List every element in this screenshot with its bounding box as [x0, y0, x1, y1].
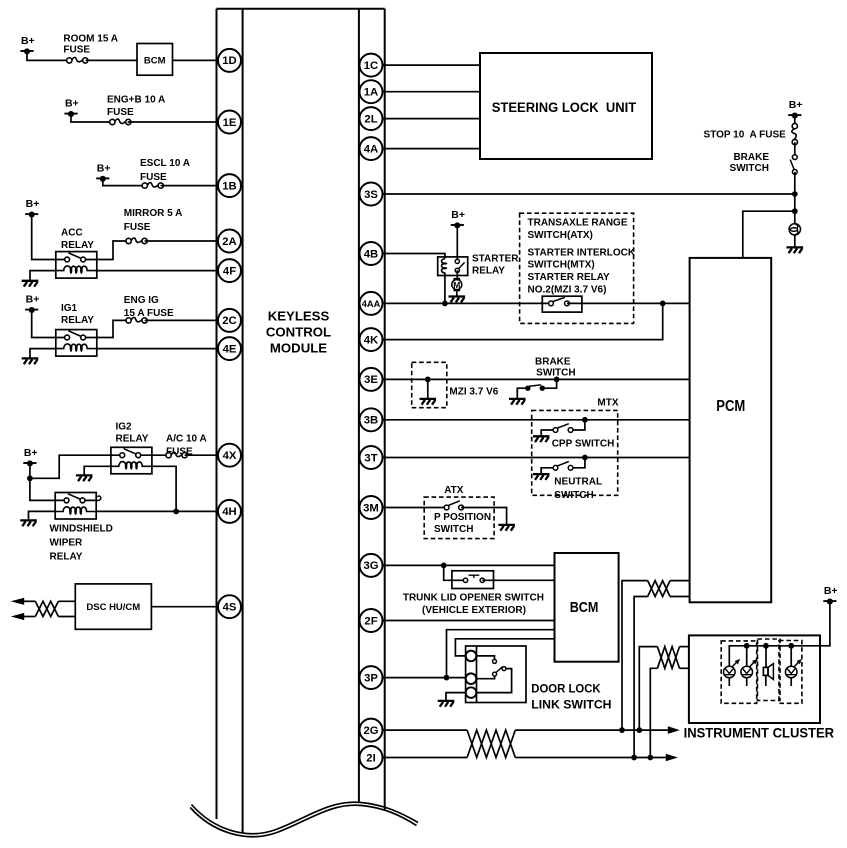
pin 4F — [218, 259, 241, 282]
wire 2F line — [380, 620, 555, 622]
ground (MZI) — [420, 399, 437, 405]
cluster dashed box 3 — [779, 641, 802, 704]
pin 1B — [218, 174, 241, 197]
wire wiper coil to pin 4H — [96, 510, 222, 512]
svg-text:ROOM 15 A: ROOM 15 A — [63, 34, 118, 45]
svg-text:PCM: PCM — [716, 398, 745, 415]
fuse ENG IG 15A — [126, 317, 147, 323]
wire stop lamp to ground — [794, 235, 796, 247]
wire mirror fuse to pin 2A — [145, 240, 222, 242]
relay IG2 — [111, 447, 152, 474]
wire motor to ground — [456, 291, 458, 295]
svg-text:2C: 2C — [222, 315, 236, 327]
svg-text:BRAKE: BRAKE — [733, 152, 769, 163]
brake switch (3E) — [525, 385, 545, 391]
pin 4E — [218, 337, 241, 360]
svg-text:STARTER INTERLOCK: STARTER INTERLOCK — [528, 248, 636, 259]
svg-text:2L: 2L — [364, 113, 377, 125]
pin 4AA — [360, 292, 383, 315]
svg-text:IG2: IG2 — [116, 422, 133, 433]
relay windshield wiper — [55, 493, 96, 520]
wire to lamp 3 — [790, 646, 792, 666]
wire stop fuse to brake switch — [794, 142, 796, 157]
wire wiper coil to ground — [29, 511, 56, 519]
svg-text:4X: 4X — [223, 450, 237, 462]
fuse ESCL 10A — [142, 183, 163, 189]
twisted pair (to cluster) — [657, 647, 679, 669]
svg-text:RELAY: RELAY — [50, 552, 83, 563]
wire to stop lamp — [794, 211, 796, 224]
pin 4X — [218, 444, 241, 467]
junction 2I / PCM pair — [631, 755, 637, 761]
svg-text:3G: 3G — [363, 560, 378, 572]
wire 4AA line left part — [380, 302, 551, 304]
pin 3S — [360, 183, 383, 206]
wire IG1 coil to ground — [30, 349, 56, 358]
svg-text:SWITCH: SWITCH — [554, 490, 593, 501]
junction lamp 3 — [788, 643, 794, 649]
fuse MIRROR 5A — [126, 238, 147, 244]
MZI 3.7 V6 box (dashed) — [412, 362, 447, 407]
ground (P position) — [498, 525, 515, 531]
wire ENG IG fuse to pin 2C — [145, 319, 222, 321]
wire starter coil to 4AA line — [444, 273, 446, 304]
svg-text:ESCL 10 A: ESCL 10 A — [140, 158, 190, 169]
starter relay — [438, 257, 468, 276]
wire DSC to pin 4S — [151, 606, 222, 608]
pin 2I — [360, 746, 383, 769]
svg-text:ENG IG: ENG IG — [124, 295, 159, 306]
wire 3G line — [380, 564, 555, 566]
wire wiper switch stub — [96, 499, 98, 501]
svg-text:RELAY: RELAY — [61, 240, 94, 251]
indicator lamp 3 — [785, 659, 802, 678]
junction neutral switch — [582, 455, 588, 461]
svg-text:P POSITION: P POSITION — [434, 512, 491, 523]
svg-text:M: M — [453, 280, 460, 290]
svg-text:MIRROR 5 A: MIRROR 5 A — [124, 208, 183, 219]
starter motor M — [452, 278, 462, 291]
pin 3P — [360, 666, 383, 689]
svg-text:ATX: ATX — [444, 485, 464, 496]
wire BCM to pin 1D — [173, 59, 223, 61]
ground (neutral switch) — [533, 474, 550, 480]
wire pair to cluster upper — [680, 646, 689, 648]
ground (IG2 relay) — [76, 475, 93, 481]
svg-text:B+: B+ — [824, 585, 838, 597]
wire ENG+B fuse to pin 1E — [128, 121, 222, 123]
svg-text:STEERING LOCK UNIT: STEERING LOCK UNIT — [492, 100, 637, 116]
wire 2L to steering lock unit — [380, 118, 480, 120]
wire 4K to 4AA junction — [380, 303, 663, 339]
wire DSC twisted pair lower — [58, 616, 75, 618]
svg-text:NO.2(MZI 3.7 V6): NO.2(MZI 3.7 V6) — [528, 285, 607, 296]
wire 2G branch up to PCM pair — [622, 581, 648, 731]
wire pair to PCM lower — [670, 596, 690, 598]
wire 2G line right — [515, 729, 669, 731]
wire B+ to ENG+B fuse — [71, 114, 113, 122]
svg-text:FUSE: FUSE — [63, 44, 90, 55]
wire 3S line — [380, 193, 795, 195]
wire branch to PCM top — [743, 211, 795, 258]
ground (CPP) — [533, 436, 550, 442]
wire B+ to IG1 relay switch — [32, 310, 56, 338]
wire lamp 1 lower — [728, 678, 730, 686]
relay IG1 — [56, 330, 97, 357]
svg-text:3M: 3M — [363, 502, 379, 514]
fuse A/C 10A — [166, 452, 187, 458]
pin 3T — [360, 446, 383, 469]
pin 1A — [360, 80, 383, 103]
relay ACC — [56, 252, 97, 279]
pin 1C — [360, 54, 383, 77]
svg-text:4K: 4K — [364, 334, 379, 346]
junction 3P / BCM — [444, 675, 450, 681]
svg-text:WINDSHIELD: WINDSHIELD — [50, 523, 113, 534]
svg-text:FUSE: FUSE — [107, 107, 134, 118]
svg-text:4E: 4E — [223, 343, 237, 355]
pin 2A — [218, 230, 241, 253]
wire B+ to stop fuse — [794, 115, 796, 126]
svg-text:ACC: ACC — [61, 228, 83, 239]
DSC HU/CM unit — [75, 584, 151, 629]
PCM unit — [690, 258, 772, 602]
pin 4S — [218, 595, 241, 618]
wire IG1 relay to ENG IG fuse — [97, 320, 129, 337]
fuse ENG+B 10A — [110, 119, 131, 125]
svg-text:3P: 3P — [364, 672, 378, 684]
svg-text:4B: 4B — [364, 248, 378, 260]
arrow (DSC lower) — [11, 613, 25, 620]
svg-text:MZI 3.7 V6: MZI 3.7 V6 — [449, 387, 498, 398]
B+ supply (stop fuse) — [788, 99, 802, 118]
pin 4A — [360, 137, 383, 160]
junction 4AA / 4K — [660, 301, 666, 307]
svg-text:3B: 3B — [364, 415, 378, 427]
svg-text:15 A FUSE: 15 A FUSE — [124, 308, 174, 319]
wire 4B to starter relay coil — [380, 254, 445, 259]
wire ACC relay to mirror fuse — [97, 241, 129, 260]
wire pair to PCM upper — [670, 580, 690, 582]
svg-text:1B: 1B — [222, 180, 236, 192]
pin 2G — [360, 719, 383, 742]
svg-text:TRANSAXLE RANGE: TRANSAXLE RANGE — [528, 218, 628, 229]
wire down to branch — [794, 194, 796, 211]
ground (door lock) — [438, 701, 455, 707]
junction MZI ground — [425, 377, 431, 383]
wire A/C fuse to pin 4X — [185, 454, 222, 456]
transaxle range switch contacts — [542, 296, 582, 312]
svg-text:3E: 3E — [364, 374, 378, 386]
indicator lamp 1 — [724, 659, 741, 678]
pin 4B — [360, 242, 383, 265]
ground (wiper relay) — [20, 520, 37, 526]
neutral switch — [541, 458, 585, 474]
twisted pair (DSC) — [35, 601, 58, 616]
junction 3S / brake — [792, 191, 798, 197]
junction trunk switch — [441, 563, 447, 569]
pin 3B — [360, 408, 383, 431]
wire B+ to starter contact — [456, 225, 458, 261]
wire P position switch to ground — [461, 508, 507, 525]
svg-text:CONTROL: CONTROL — [266, 325, 331, 340]
junction buzzer — [763, 643, 769, 649]
wire 2I line right — [515, 757, 667, 759]
svg-text:SWITCH: SWITCH — [730, 163, 769, 174]
wire 2I branch to cluster pair — [650, 668, 657, 757]
svg-text:FUSE: FUSE — [140, 172, 167, 183]
wire 1C to steering lock unit — [380, 64, 480, 66]
svg-text:TRUNK LID OPENER SWITCH: TRUNK LID OPENER SWITCH — [403, 593, 544, 604]
svg-text:(VEHICLE EXTERIOR): (VEHICLE EXTERIOR) — [422, 605, 526, 616]
wire room fuse to BCM — [86, 59, 137, 61]
pin 2F — [360, 609, 383, 632]
svg-text:3S: 3S — [364, 189, 378, 201]
svg-text:2G: 2G — [363, 725, 378, 737]
svg-text:1A: 1A — [364, 87, 378, 99]
B+ supply (cluster) — [823, 585, 837, 604]
steering lock unit — [480, 53, 652, 159]
wire lamp 2 lower — [746, 678, 748, 686]
CPP switch — [541, 420, 585, 436]
svg-text:DOOR LOCK: DOOR LOCK — [531, 682, 600, 696]
svg-text:FUSE: FUSE — [124, 222, 151, 233]
svg-text:NEUTRAL: NEUTRAL — [554, 477, 602, 488]
wire B+ rail to lamp 1 — [729, 601, 830, 666]
BCM unit — [555, 553, 619, 662]
junction 4H line — [173, 509, 179, 515]
wire B+ to room fuse — [27, 51, 69, 60]
svg-text:B+: B+ — [24, 447, 38, 459]
wire brake switch to ground — [517, 388, 528, 398]
wire to lamp 2 — [746, 646, 748, 666]
B+ supply (starter relay) — [451, 209, 465, 228]
svg-text:2F: 2F — [364, 615, 377, 627]
wire ESCL fuse to pin 1B — [161, 185, 222, 187]
svg-text:MTX: MTX — [597, 397, 618, 408]
svg-text:BCM: BCM — [570, 600, 599, 616]
wire stub curl — [97, 496, 101, 501]
arrow (DSC upper) — [11, 598, 25, 605]
svg-text:KEYLESS: KEYLESS — [268, 309, 330, 324]
svg-text:4F: 4F — [223, 265, 236, 277]
svg-text:B+: B+ — [21, 35, 35, 47]
wire trunk switch to BCM — [482, 579, 554, 581]
wire pair to cluster lower — [680, 667, 689, 669]
cluster dashed box 2 — [758, 639, 781, 701]
wire B+ down to junction — [29, 463, 31, 478]
ground (ACC relay) — [22, 281, 39, 287]
junction CPP — [582, 417, 588, 423]
instrument cluster box — [689, 635, 820, 723]
wire IG2 coil to 4H line — [152, 466, 176, 511]
fuse STOP 10A — [792, 123, 798, 144]
svg-text:2A: 2A — [222, 236, 236, 248]
svg-text:RELAY: RELAY — [116, 433, 149, 444]
indicator lamp 2 — [741, 659, 758, 678]
svg-text:BCM: BCM — [144, 55, 166, 66]
svg-text:WIPER: WIPER — [50, 538, 84, 549]
fuse ROOM 15A — [67, 57, 88, 63]
svg-text:B+: B+ — [97, 162, 111, 174]
buzzer (speaker) — [763, 664, 773, 680]
B+ supply (ENG+B fuse) — [64, 98, 78, 117]
wire 3P line — [380, 677, 466, 679]
wire 2I line left — [380, 757, 467, 759]
svg-text:4H: 4H — [222, 506, 236, 518]
pin 4H — [218, 500, 241, 523]
ground (IG1 relay) — [22, 358, 39, 364]
svg-text:ENG+B 10 A: ENG+B 10 A — [107, 95, 165, 106]
twisted pair (2G/2I) — [467, 730, 515, 757]
wire to arrow lower — [23, 616, 35, 618]
wire 3P to BCM — [447, 630, 555, 678]
junction stop lamp branch — [792, 208, 798, 214]
svg-text:STARTER: STARTER — [472, 254, 519, 265]
arrow 2G to instrument cluster — [668, 726, 680, 734]
junction lamp 2 — [744, 643, 750, 649]
svg-text:SWITCH: SWITCH — [434, 524, 473, 535]
B+ supply (room fuse) — [20, 35, 34, 54]
pin 2C — [218, 309, 241, 332]
arrow 2I to instrument cluster — [666, 754, 678, 762]
ATX P position switch box (dashed) — [424, 497, 494, 538]
ground (starter motor) — [449, 297, 466, 303]
wire junction to IG2 relay switch — [30, 455, 111, 478]
ground (brake switch) — [509, 399, 526, 405]
svg-text:B+: B+ — [26, 198, 40, 210]
svg-text:INSTRUMENT CLUSTER: INSTRUMENT CLUSTER — [684, 726, 835, 741]
svg-text:2I: 2I — [366, 752, 375, 764]
svg-text:SWITCH(MTX): SWITCH(MTX) — [528, 260, 595, 271]
wire 3E to brake switch — [542, 379, 556, 388]
svg-text:STARTER RELAY: STARTER RELAY — [528, 272, 611, 283]
wire MZI to ground — [427, 379, 429, 398]
junction brake switch — [554, 377, 560, 383]
wire 2G branch to cluster pair — [639, 647, 657, 731]
P position switch contacts — [444, 501, 463, 510]
svg-text:SWITCH(ATX): SWITCH(ATX) — [528, 230, 593, 241]
door lock link switch — [466, 646, 526, 703]
svg-text:3T: 3T — [364, 452, 377, 464]
junction starter coil / 4AA — [442, 301, 448, 307]
pin 3E — [360, 368, 383, 391]
wire B+ to ACC relay switch — [32, 214, 56, 259]
svg-text:4A: 4A — [364, 143, 378, 155]
svg-text:B+: B+ — [789, 99, 803, 111]
wire B+ to ESCL fuse — [103, 179, 145, 186]
svg-text:BRAKE: BRAKE — [535, 357, 571, 368]
wire 3B line — [380, 419, 690, 421]
wire ACC coil to ground — [30, 271, 56, 280]
svg-text:RELAY: RELAY — [61, 315, 94, 326]
wire 2G line left — [380, 729, 467, 731]
wire IG2 coil to ground — [84, 466, 111, 474]
brake switch (stop lamp) — [790, 155, 797, 175]
junction B+ branch — [27, 475, 33, 481]
B+ supply (ESCL fuse) — [96, 162, 110, 181]
B+ supply (IG2/wiper relays) — [23, 447, 37, 466]
wire to arrow upper — [23, 600, 35, 602]
wire IG1 relay coil to pin 4E — [97, 348, 222, 350]
wire to trunk switch — [444, 565, 466, 580]
pin 3M — [360, 496, 383, 519]
svg-text:B+: B+ — [451, 209, 465, 221]
wire 3T line — [380, 457, 690, 459]
wire junction to wiper relay switch — [30, 478, 55, 500]
MTX box (dashed) — [532, 410, 618, 495]
wire BCM to door lock top pin — [455, 639, 554, 656]
wire to buzzer — [765, 646, 767, 668]
pin 2L — [360, 107, 383, 130]
wire lamp 3 lower — [790, 678, 792, 686]
ground (stop lamp) — [787, 247, 804, 253]
junction 2G / PCM pair — [619, 727, 625, 733]
junction 2I / cluster pair — [647, 755, 653, 761]
pin 3G — [360, 554, 383, 577]
wire 2I branch up to PCM pair — [634, 597, 648, 758]
svg-text:1E: 1E — [223, 117, 237, 129]
svg-text:B+: B+ — [26, 294, 40, 306]
wire brake switch down — [794, 172, 796, 194]
wire 1A to steering lock unit — [380, 91, 480, 93]
wire starter contact to motor — [456, 270, 458, 279]
wire IG2 relay to A/C fuse — [152, 454, 169, 456]
svg-text:B+: B+ — [65, 98, 79, 110]
trunk lid opener switch — [452, 571, 494, 589]
wire door lock to ground — [446, 693, 466, 701]
svg-text:4AA: 4AA — [362, 299, 381, 309]
module name text — [266, 309, 331, 356]
pin 1D — [218, 49, 241, 72]
svg-text:STOP 10 A FUSE: STOP 10 A FUSE — [704, 130, 787, 141]
BCM module (small box) — [137, 44, 173, 76]
svg-text:1D: 1D — [222, 55, 236, 67]
svg-text:RELAY: RELAY — [472, 266, 505, 277]
stop lamp symbol — [789, 224, 800, 235]
B+ supply (ACC relay) — [25, 198, 39, 217]
svg-text:IG1: IG1 — [61, 303, 78, 314]
wire 4AA line right part — [567, 302, 690, 304]
cluster dashed box 1 — [721, 641, 757, 703]
svg-text:4S: 4S — [223, 602, 237, 614]
wire DSC twisted pair upper — [58, 600, 75, 602]
wire 3M to P position switch — [380, 507, 447, 509]
twisted pair (to PCM) — [648, 581, 670, 597]
svg-text:1C: 1C — [364, 60, 378, 72]
pin 4K — [360, 328, 383, 351]
junction 2G / cluster pair — [636, 727, 642, 733]
svg-text:DSC HU/CM: DSC HU/CM — [86, 602, 140, 613]
module bottom break wave — [190, 802, 418, 837]
wire 4A to steering lock unit — [380, 148, 480, 150]
svg-text:A/C 10 A: A/C 10 A — [166, 433, 207, 444]
svg-text:CPP SWITCH: CPP SWITCH — [552, 439, 615, 450]
svg-text:MODULE: MODULE — [270, 341, 327, 356]
B+ supply (IG1 relay) — [25, 294, 39, 313]
wire ACC relay coil to pin 4F — [97, 270, 222, 272]
wire buzzer lower — [765, 675, 767, 686]
svg-text:LINK SWITCH: LINK SWITCH — [531, 697, 611, 711]
transaxle range switch box (dashed) — [520, 213, 634, 323]
wire 3E line — [380, 378, 690, 380]
keyless control module outline — [217, 9, 385, 833]
pin 1E — [218, 111, 241, 134]
